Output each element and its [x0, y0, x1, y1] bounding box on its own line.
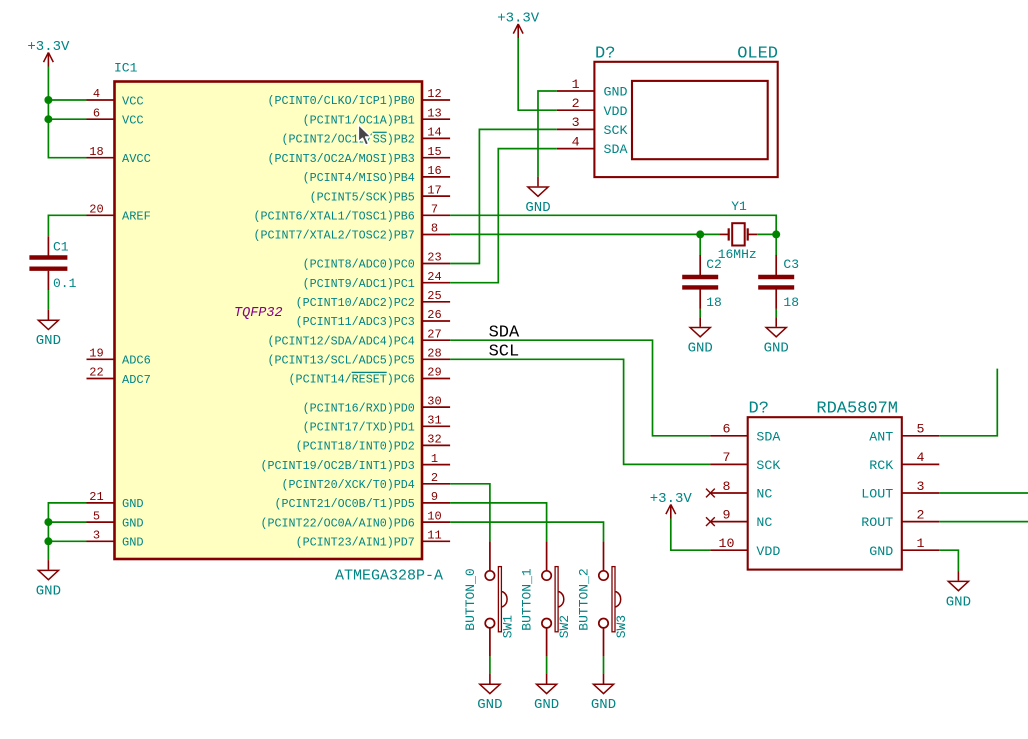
- wire AREF to C1: [48, 215, 86, 236]
- svg-text:15: 15: [427, 145, 441, 159]
- svg-text:RCK: RCK: [869, 458, 893, 473]
- capacitor C3 18pF: [758, 255, 799, 310]
- power symbol +3.3V (RDA supply): [650, 491, 693, 519]
- svg-text:C2: C2: [706, 257, 722, 272]
- wire GND pin 21 down rail: [48, 503, 86, 560]
- capacitor C1: [29, 236, 76, 291]
- wire node to C3: [775, 234, 777, 255]
- IC1 pin 22 ADC7: [87, 366, 151, 387]
- svg-text:31: 31: [427, 414, 441, 428]
- svg-text:GND: GND: [869, 544, 893, 559]
- svg-text:14: 14: [427, 126, 441, 140]
- svg-text:SCK: SCK: [604, 123, 628, 138]
- wire RDA GND pin 1: [939, 550, 958, 571]
- svg-text:GND: GND: [764, 340, 789, 356]
- no-connect flag pin 8: [706, 489, 715, 498]
- svg-text:1: 1: [572, 77, 580, 92]
- power symbol +3.3V (OLED supply): [497, 11, 540, 39]
- svg-text:13: 13: [427, 106, 441, 120]
- svg-text:7: 7: [723, 450, 731, 465]
- svg-text:C3: C3: [783, 257, 799, 272]
- power symbol GND (C3): [764, 317, 789, 356]
- wire SW2 to GND: [546, 656, 548, 674]
- svg-text:5: 5: [93, 509, 100, 523]
- wire node to C2: [699, 234, 701, 255]
- OLED pin 4 SDA: [557, 134, 628, 157]
- power symbol GND (IC1): [36, 560, 61, 599]
- svg-text:GND: GND: [36, 333, 61, 349]
- wire OLED SDA to PC1: [450, 149, 557, 283]
- svg-text:SW2: SW2: [557, 615, 572, 638]
- wire ROUT: [939, 521, 1028, 523]
- svg-text:(PCINT14/RESET)PC6: (PCINT14/RESET)PC6: [289, 373, 415, 387]
- svg-text:SDA: SDA: [604, 142, 628, 157]
- svg-text:BUTTON_1: BUTTON_1: [520, 568, 535, 631]
- svg-text:(PCINT10/ADC2)PC2: (PCINT10/ADC2)PC2: [296, 296, 415, 310]
- IC1 pin 4 VCC: [87, 87, 144, 108]
- svg-text:(PCINT0/CLKO/ICP1)PB0: (PCINT0/CLKO/ICP1)PB0: [268, 94, 415, 108]
- wire +3.3V rail down to AVCC: [48, 67, 86, 158]
- svg-text:17: 17: [427, 183, 441, 197]
- svg-text:19: 19: [89, 347, 103, 361]
- IC1 pin 13 PB1: [303, 106, 451, 127]
- wire OLED GND pin 1: [538, 91, 557, 177]
- svg-text:NC: NC: [756, 487, 772, 502]
- svg-text:SDA: SDA: [756, 429, 780, 444]
- svg-text:4: 4: [93, 87, 100, 101]
- svg-text:ATMEGA328P-A: ATMEGA328P-A: [335, 568, 443, 585]
- svg-text:25: 25: [427, 289, 441, 303]
- junction at VCC pin 6: [44, 115, 52, 123]
- svg-text:23: 23: [427, 251, 441, 265]
- wire ANT antenna stub: [939, 369, 997, 436]
- IC1 pin 14 PB2: [282, 126, 451, 147]
- IC1 pin 16 PB4: [303, 164, 451, 185]
- svg-text:OLED: OLED: [737, 45, 778, 64]
- junction at VCC pin 4: [44, 96, 52, 104]
- IC1 pin 3 GND: [87, 529, 144, 550]
- wire SW3 to GND: [603, 656, 605, 674]
- svg-text:(PCINT3/OC2A/MOSI)PB3: (PCINT3/OC2A/MOSI)PB3: [268, 152, 415, 166]
- wire SDA: PC4 to RDA pin 6: [450, 340, 710, 436]
- IC1 pin 30 PD0: [303, 394, 451, 415]
- IC1 pin 27 PC4: [268, 327, 451, 348]
- svg-text:2: 2: [431, 471, 438, 485]
- svg-text:AREF: AREF: [122, 210, 151, 224]
- push button SW3 BUTTON_2: [576, 541, 629, 656]
- IC1 pin 6 VCC: [87, 106, 144, 127]
- svg-text:BUTTON_2: BUTTON_2: [576, 568, 591, 630]
- mouse cursor: [358, 124, 371, 145]
- svg-text:GND: GND: [122, 536, 144, 550]
- crystal Y1: [700, 199, 776, 262]
- IC1 pin 32 PD2: [296, 433, 451, 454]
- OLED pin 1 GND: [557, 77, 628, 100]
- svg-text:9: 9: [431, 490, 438, 504]
- svg-text:VCC: VCC: [122, 94, 144, 108]
- push button SW2 BUTTON_1: [520, 541, 573, 656]
- RDA pin 3 LOUT: [861, 479, 939, 502]
- svg-text:D?: D?: [749, 400, 769, 419]
- IC1 pin 28 PC5: [268, 347, 451, 368]
- IC1 pin 9 PD5: [275, 490, 451, 511]
- svg-text:Y1: Y1: [731, 199, 747, 214]
- wire to VCC pin 4: [48, 99, 86, 101]
- svg-text:7: 7: [431, 203, 438, 217]
- svg-text:(PCINT9/ADC1)PC1: (PCINT9/ADC1)PC1: [303, 277, 415, 291]
- junction crystal right: [772, 230, 780, 238]
- svg-text:(PCINT23/AIN1)PD7: (PCINT23/AIN1)PD7: [296, 536, 415, 550]
- svg-text:(PCINT21/OC0B/T1)PD5: (PCINT21/OC0B/T1)PD5: [275, 497, 415, 511]
- wire to VCC pin 6: [48, 118, 86, 120]
- wire SW1 to GND: [489, 656, 491, 674]
- RDA pin 6 SDA: [710, 422, 780, 445]
- IC U1: ATMEGA328P-A body: [115, 82, 423, 560]
- wire PD to SW1: [450, 484, 490, 542]
- svg-text:GND: GND: [477, 697, 502, 713]
- svg-text:ADC6: ADC6: [122, 354, 151, 368]
- svg-text:GND: GND: [591, 697, 616, 713]
- wire GND pin 3: [48, 540, 86, 542]
- power symbol GND (SW1): [477, 674, 502, 713]
- svg-text:(PCINT17/TXD)PD1: (PCINT17/TXD)PD1: [303, 421, 415, 435]
- svg-text:2: 2: [572, 96, 580, 111]
- power symbol +3.3V (IC supply): [27, 39, 70, 67]
- wire +3.3V to OLED VDD: [518, 38, 557, 110]
- svg-text:30: 30: [427, 394, 441, 408]
- IC1 pin 15 PB3: [268, 145, 451, 166]
- wire OLED SCK to PC0: [450, 129, 557, 263]
- IC1 pin 1 PD3: [260, 452, 450, 473]
- wire C1 to GND: [47, 290, 49, 310]
- svg-text:2: 2: [917, 507, 925, 522]
- svg-text:1: 1: [431, 452, 438, 466]
- RDA pin 8 NC: [710, 479, 772, 502]
- junction at GND pin 5: [44, 518, 52, 526]
- RDA pin 7 SCK: [710, 450, 780, 473]
- svg-text:SDA: SDA: [489, 324, 520, 343]
- svg-text:BUTTON_0: BUTTON_0: [463, 568, 478, 630]
- svg-text:IC1: IC1: [114, 61, 138, 76]
- svg-text:(PCINT12/SDA/ADC4)PC4: (PCINT12/SDA/ADC4)PC4: [268, 334, 415, 348]
- svg-text:4: 4: [572, 134, 580, 149]
- svg-text:SCK: SCK: [756, 458, 780, 473]
- IC1 pin 20 AREF: [87, 203, 151, 224]
- OLED screen rectangle: [632, 81, 768, 159]
- svg-text:(PCINT7/XTAL2/TOSC2)PB7: (PCINT7/XTAL2/TOSC2)PB7: [253, 229, 414, 243]
- wire C3 to GND: [775, 309, 777, 317]
- svg-text:GND: GND: [604, 85, 628, 100]
- svg-text:VDD: VDD: [604, 104, 628, 119]
- IC1 pin 19 ADC6: [87, 347, 151, 368]
- svg-text:12: 12: [427, 87, 441, 101]
- svg-text:(PCINT18/INT0)PD2: (PCINT18/INT0)PD2: [296, 440, 415, 454]
- svg-text:32: 32: [427, 433, 441, 447]
- wire PB6 to crystal right node: [450, 215, 776, 234]
- svg-text:ADC7: ADC7: [122, 373, 151, 387]
- wire PD to SW2: [450, 503, 546, 542]
- svg-text:22: 22: [89, 366, 103, 380]
- push button SW1 BUTTON_0: [463, 541, 516, 656]
- svg-text:ANT: ANT: [869, 429, 893, 444]
- svg-text:26: 26: [427, 308, 441, 322]
- power symbol GND (RDA): [946, 571, 971, 610]
- no-connect flag pin 9: [706, 517, 715, 526]
- IC1 pin 8 PB7: [253, 222, 450, 243]
- svg-text:(PCINT22/OC0A/AIN0)PD6: (PCINT22/OC0A/AIN0)PD6: [260, 516, 414, 530]
- svg-text:GND: GND: [36, 583, 61, 599]
- svg-text:18: 18: [706, 295, 722, 310]
- junction crystal left: [696, 230, 704, 238]
- svg-text:10: 10: [427, 509, 441, 523]
- IC1 pin 7 PB6: [253, 203, 450, 224]
- RDA pin 9 NC: [710, 507, 772, 530]
- IC1 pin 18 AVCC: [87, 145, 151, 166]
- svg-text:16MHz: 16MHz: [718, 247, 757, 262]
- RDA pin 10 VDD: [710, 536, 780, 559]
- svg-text:20: 20: [89, 203, 103, 217]
- OLED pin 2 VDD: [557, 96, 628, 119]
- wire GND pin 5: [48, 521, 86, 523]
- IC1 pin 5 GND: [87, 509, 144, 530]
- wire +3.3V to RDA VDD: [671, 519, 711, 551]
- svg-text:SW1: SW1: [500, 615, 515, 639]
- wire PB7 to crystal left node: [450, 233, 700, 235]
- connector D? OLED body: [594, 62, 777, 177]
- wire SCL: PC5 to RDA pin 7: [450, 359, 710, 464]
- svg-text:27: 27: [427, 327, 441, 341]
- capacitor C2 18pF: [682, 255, 722, 310]
- svg-text:4: 4: [917, 450, 925, 465]
- svg-text:3: 3: [93, 529, 100, 543]
- svg-text:RDA5807M: RDA5807M: [816, 400, 898, 419]
- svg-text:SCL: SCL: [489, 343, 520, 362]
- IC1 pin 25 PC2: [296, 289, 451, 310]
- IC1 pin 11 PD7: [296, 529, 451, 550]
- power symbol GND (OLED): [525, 177, 550, 216]
- wire LOUT: [939, 492, 1028, 494]
- svg-text:29: 29: [427, 366, 441, 380]
- IC1 pin 10 PD6: [260, 509, 450, 530]
- RDA pin 2 ROUT: [861, 507, 939, 530]
- svg-text:(PCINT11/ADC3)PC3: (PCINT11/ADC3)PC3: [296, 315, 415, 329]
- svg-text:(PCINT2/OC1B/SS)PB2: (PCINT2/OC1B/SS)PB2: [282, 133, 415, 147]
- svg-text:(PCINT8/ADC0)PC0: (PCINT8/ADC0)PC0: [303, 258, 415, 272]
- svg-text:AVCC: AVCC: [122, 152, 151, 166]
- svg-text:GND: GND: [525, 200, 550, 216]
- svg-text:GND: GND: [122, 497, 144, 511]
- svg-text:ROUT: ROUT: [861, 515, 893, 530]
- svg-text:3: 3: [917, 479, 925, 494]
- RDA pin 1 GND: [869, 536, 939, 559]
- IC1 pin 31 PD1: [303, 414, 451, 435]
- OLED pin 3 SCK: [557, 115, 628, 138]
- svg-text:1: 1: [917, 536, 925, 551]
- svg-text:8: 8: [431, 222, 438, 236]
- junction at GND pin 3: [44, 537, 52, 545]
- IC1 pin 21 GND: [87, 490, 144, 511]
- svg-text:VDD: VDD: [756, 544, 780, 559]
- svg-text:8: 8: [723, 479, 731, 494]
- svg-text:D?: D?: [595, 45, 615, 64]
- radio module D? RDA5807M body: [748, 417, 902, 569]
- svg-text:NC: NC: [756, 515, 772, 530]
- wire PD to SW3: [450, 522, 603, 541]
- svg-text:GND: GND: [946, 594, 971, 610]
- svg-text:18: 18: [783, 295, 799, 310]
- IC1 pin 17 PB5: [310, 183, 451, 204]
- svg-text:SW3: SW3: [614, 615, 629, 638]
- svg-text:VCC: VCC: [122, 114, 144, 128]
- svg-text:(PCINT6/XTAL1/TOSC1)PB6: (PCINT6/XTAL1/TOSC1)PB6: [253, 210, 414, 224]
- svg-text:18: 18: [89, 145, 103, 159]
- svg-text:(PCINT19/OC2B/INT1)PD3: (PCINT19/OC2B/INT1)PD3: [260, 459, 414, 473]
- IC1 pin 26 PC3: [296, 308, 451, 329]
- svg-text:10: 10: [719, 536, 735, 551]
- svg-text:(PCINT13/SCL/ADC5)PC5: (PCINT13/SCL/ADC5)PC5: [268, 354, 415, 368]
- svg-text:9: 9: [723, 507, 731, 522]
- svg-text:GND: GND: [122, 516, 144, 530]
- svg-text:3: 3: [572, 115, 580, 130]
- svg-text:(PCINT16/RXD)PD0: (PCINT16/RXD)PD0: [303, 401, 415, 415]
- RDA pin 5 ANT: [869, 422, 939, 445]
- svg-text:6: 6: [723, 422, 731, 437]
- svg-text:(PCINT5/SCK)PB5: (PCINT5/SCK)PB5: [310, 190, 415, 204]
- svg-text:GND: GND: [688, 340, 713, 356]
- wire C2 to GND: [699, 309, 701, 317]
- svg-text:TQFP32: TQFP32: [234, 306, 283, 321]
- svg-text:16: 16: [427, 164, 441, 178]
- svg-text:11: 11: [427, 529, 441, 543]
- svg-text:21: 21: [89, 490, 103, 504]
- IC1 pin 12 PB0: [268, 87, 451, 108]
- svg-text:24: 24: [427, 270, 441, 284]
- IC1 pin 23 PC0: [303, 251, 451, 272]
- svg-text:0.1: 0.1: [53, 276, 77, 291]
- IC1 pin 24 PC1: [303, 270, 451, 291]
- svg-text:LOUT: LOUT: [861, 487, 893, 502]
- svg-text:C1: C1: [53, 239, 69, 254]
- svg-text:(PCINT4/MISO)PB4: (PCINT4/MISO)PB4: [303, 171, 415, 185]
- svg-text:28: 28: [427, 347, 441, 361]
- IC1 pin 2 PD4: [282, 471, 451, 492]
- svg-text:6: 6: [93, 106, 100, 120]
- power symbol GND (SW3): [591, 674, 616, 713]
- RDA pin 4 RCK: [869, 450, 939, 473]
- svg-text:5: 5: [917, 422, 925, 437]
- IC1 pin 29 PC6: [289, 366, 451, 387]
- svg-text:GND: GND: [534, 697, 559, 713]
- power symbol GND (SW2): [534, 674, 559, 713]
- power symbol GND (C1): [36, 310, 61, 349]
- power symbol GND (C2): [688, 317, 713, 356]
- svg-text:(PCINT20/XCK/T0)PD4: (PCINT20/XCK/T0)PD4: [282, 478, 415, 492]
